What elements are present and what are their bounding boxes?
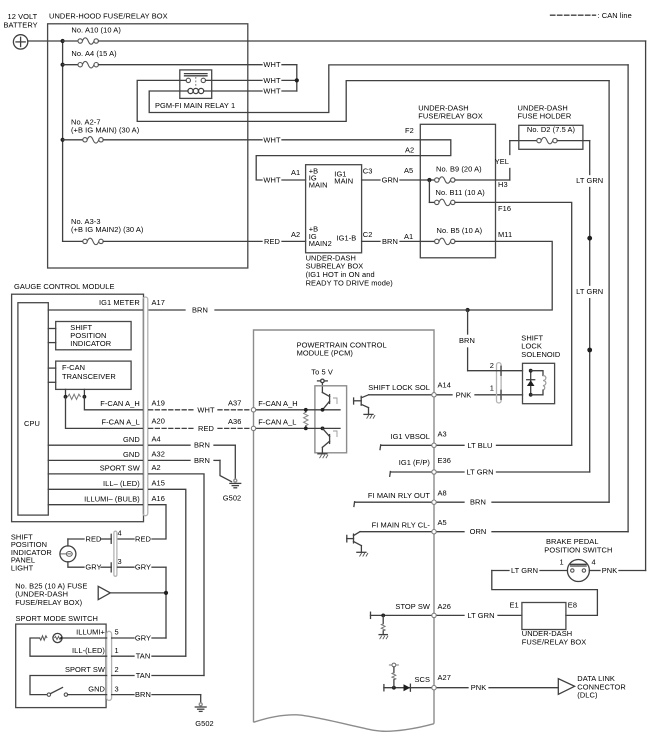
PCM pin circles right: [432, 393, 436, 690]
shift lock solenoid connector: [490, 361, 501, 403]
svg-text:A2: A2: [291, 230, 300, 239]
svg-text:F-CAN: F-CAN: [62, 363, 85, 372]
svg-text:SHIFT LOCK SOL: SHIFT LOCK SOL: [368, 383, 430, 392]
svg-text:2: 2: [115, 665, 119, 674]
under-dash fuse/relay box bottom: [510, 600, 587, 646]
svg-text:E8: E8: [568, 600, 577, 609]
svg-text:BATTERY: BATTERY: [4, 20, 38, 29]
wire F16 to V5: [496, 202, 572, 445]
sport mode switch: [16, 614, 107, 707]
svg-text:To 5 V: To 5 V: [311, 368, 333, 377]
svg-text:F-CAN A_H: F-CAN A_H: [100, 399, 140, 408]
sport switch pin numbers: [115, 628, 119, 694]
svg-text:GRN: GRN: [382, 176, 399, 185]
svg-text:GND: GND: [88, 684, 105, 693]
wire BRN to solenoid pin 2: [459, 310, 522, 371]
bus wire: [62, 41, 64, 241]
svg-text:3: 3: [115, 684, 119, 693]
svg-text:ILLUMI– (BULB): ILLUMI– (BULB): [84, 494, 140, 503]
svg-text:LT BLU: LT BLU: [467, 441, 492, 450]
wire TAN sport sw: [112, 671, 204, 680]
svg-text:RED: RED: [86, 535, 102, 544]
transistor Q2: [322, 428, 337, 453]
wire FI MAIN RLY CL- A5 ORN: [360, 518, 628, 536]
battery 12V: [4, 12, 38, 49]
wire SHIFT LOCK SOL A14: [368, 381, 522, 400]
svg-text:LT GRN: LT GRN: [466, 468, 493, 477]
svg-text:ORN: ORN: [470, 527, 487, 536]
wire BRN row to gauge: [149, 306, 468, 315]
wire IG1 VBSOL A3 LT BLU: [380, 429, 572, 449]
svg-text:FI MAIN RLY CL-: FI MAIN RLY CL-: [372, 521, 431, 530]
sport switch pin strip: [107, 631, 112, 700]
svg-text:UNDER-HOOD FUSE/RELAY BOX: UNDER-HOOD FUSE/RELAY BOX: [49, 12, 168, 21]
powertrain control module box: [254, 330, 435, 731]
svg-text:F2: F2: [405, 126, 414, 135]
svg-text:F16: F16: [498, 204, 511, 213]
svg-text:IG1 (F/P): IG1 (F/P): [399, 458, 431, 467]
under-hood fuse/relay box: [48, 12, 248, 268]
wire C3 GRN to A5: [362, 176, 421, 185]
svg-text:No. B9 (20 A): No. B9 (20 A): [436, 165, 482, 174]
svg-text:RED: RED: [198, 424, 214, 433]
wire WHT label A1: [263, 176, 305, 185]
wire F-CAN A_H gauge: [84, 397, 165, 410]
svg-text:No. A4 (15 A): No. A4 (15 A): [71, 49, 117, 58]
wire F-CAN A_L pcm: [256, 418, 340, 429]
fuse B5 (10 A): [420, 226, 495, 244]
brake pedal position switch: [544, 537, 612, 581]
svg-text:C3: C3: [363, 166, 373, 175]
wire SPORT SW A2: [48, 463, 204, 675]
wire brake LT GRN to E8: [492, 566, 598, 615]
svg-text:A15: A15: [152, 479, 165, 488]
svg-text:A2: A2: [152, 463, 161, 472]
CPU: [18, 303, 48, 515]
svg-text:FUSE HOLDER: FUSE HOLDER: [518, 112, 572, 121]
svg-text:LT GRN: LT GRN: [576, 287, 603, 296]
svg-text:IG1 METER: IG1 METER: [99, 298, 140, 307]
wire C2 BRN to A1: [362, 237, 421, 246]
node base Q2: [321, 427, 325, 431]
svg-text:A5: A5: [438, 518, 447, 527]
svg-text:INDICATOR: INDICATOR: [70, 339, 111, 348]
svg-text:A3: A3: [438, 429, 447, 438]
shift position indicator block: [48, 322, 131, 350]
svg-text:BRN: BRN: [135, 690, 151, 699]
wire junction vertical: [296, 65, 298, 91]
svg-text:POSITION SWITCH: POSITION SWITCH: [544, 545, 612, 554]
svg-text:5: 5: [115, 628, 119, 637]
svg-text:LT GRN: LT GRN: [576, 176, 603, 185]
svg-text:GND: GND: [123, 450, 140, 459]
wire V2 down: [627, 65, 629, 532]
wire relay contact right WHT: [206, 76, 297, 85]
svg-text:No. B5 (10 A): No. B5 (10 A): [437, 226, 483, 235]
fuse A10 (10 A): [63, 25, 646, 44]
svg-text:No. A10 (10 A): No. A10 (10 A): [71, 25, 121, 34]
svg-text:TAN: TAN: [136, 671, 151, 680]
wire LT GRN vertical V4: [576, 141, 603, 472]
wire GND A4 BRN: [48, 435, 235, 479]
wire V3 WHT down: [608, 81, 610, 503]
svg-text:(+B IG MAIN) (30 A): (+B IG MAIN) (30 A): [71, 126, 140, 135]
svg-text:TRANSCEIVER: TRANSCEIVER: [62, 372, 116, 381]
resistor F-CAN termination gauge: [64, 389, 87, 399]
svg-text:A4: A4: [152, 435, 161, 444]
svg-text:BRN: BRN: [194, 456, 210, 465]
CAN line legend: [551, 11, 632, 20]
svg-text:: CAN line: : CAN line: [598, 11, 632, 20]
svg-text:A2: A2: [405, 146, 414, 155]
svg-text:WHT: WHT: [263, 135, 281, 144]
data link connector DLC arrow: [558, 674, 626, 700]
svg-text:E1: E1: [510, 600, 519, 609]
svg-text:A36: A36: [228, 417, 241, 426]
wire A5 to fuses: [420, 179, 434, 181]
fuse B11 (10 A): [429, 188, 495, 206]
wire relay contact left to riser: [137, 80, 609, 121]
SCS pullup diode pcm: [384, 663, 432, 691]
svg-text:1: 1: [560, 558, 564, 567]
svg-text:SPORT SW: SPORT SW: [65, 665, 105, 674]
wire CAN A_H dashed WHT: [149, 398, 252, 414]
F-CAN transceiver block: [48, 361, 131, 389]
svg-text:SCS: SCS: [414, 675, 430, 684]
svg-text:BRN: BRN: [192, 306, 208, 315]
svg-text:MAIN: MAIN: [334, 176, 353, 185]
svg-text:GND: GND: [123, 435, 140, 444]
svg-text:A8: A8: [438, 489, 447, 498]
svg-text:1: 1: [490, 383, 494, 392]
svg-text:A1: A1: [404, 232, 413, 241]
wire ILLUMI- (BULB) A16: [48, 494, 166, 539]
svg-text:LT GRN: LT GRN: [511, 566, 538, 575]
wire IG1 METER row: [48, 298, 165, 310]
svg-text:GAUGE CONTROL MODULE: GAUGE CONTROL MODULE: [14, 282, 115, 291]
wire battery to box: [28, 40, 63, 42]
svg-text:SPORT MODE SWITCH: SPORT MODE SWITCH: [16, 614, 99, 623]
svg-text:RED: RED: [135, 535, 151, 544]
svg-text:TAN: TAN: [136, 652, 151, 661]
svg-text:GRY: GRY: [85, 563, 101, 572]
wire relay coil right WHT: [204, 87, 297, 96]
panel light connector: [111, 531, 117, 576]
svg-text:MAIN2: MAIN2: [309, 239, 332, 248]
splice dots on LT GRN: [587, 236, 592, 241]
under-dash fuse/relay box: [418, 103, 495, 257]
svg-text:BRN: BRN: [382, 237, 398, 246]
wire CAN A_L dashed RED: [149, 417, 252, 433]
under-dash subrelay box: [306, 165, 394, 288]
fuse B25 arrow: [15, 581, 166, 607]
svg-text:F-CAN A_L: F-CAN A_L: [101, 418, 139, 427]
svg-text:A27: A27: [438, 673, 451, 682]
svg-text:WHT: WHT: [263, 87, 281, 96]
fuse A3-3 (+B IG MAIN2) (30 A): [63, 217, 262, 245]
fuse B9 (20 A): [435, 165, 496, 184]
svg-text:FUSE/RELAY BOX): FUSE/RELAY BOX): [15, 598, 82, 607]
svg-text:LIGHT: LIGHT: [11, 564, 34, 573]
gauge control module: [12, 282, 144, 522]
illumination bulb sport switch: [30, 628, 107, 657]
svg-text:G502: G502: [195, 719, 214, 728]
svg-text:MAIN: MAIN: [309, 181, 328, 190]
svg-text:A20: A20: [152, 417, 165, 426]
svg-text:A1: A1: [291, 168, 300, 177]
wire STOP SW A26 LT GRN: [395, 602, 521, 620]
svg-text:G502: G502: [223, 494, 242, 503]
svg-text:GRY: GRY: [135, 563, 151, 572]
stop sw resistor ground pcm: [371, 612, 432, 639]
wire H3 YEL to D2 fuse: [495, 141, 537, 180]
svg-text:(+B IG MAIN2) (30 A): (+B IG MAIN2) (30 A): [71, 225, 144, 234]
wire F-CAN A_H pcm: [256, 399, 340, 410]
svg-text:4: 4: [118, 529, 122, 538]
node GRY junction: [164, 591, 168, 595]
svg-text:F-CAN A_L: F-CAN A_L: [258, 418, 296, 427]
svg-text:IG1 VBSOL: IG1 VBSOL: [390, 432, 430, 441]
ground G502 sport: [195, 703, 214, 728]
svg-text:WHT: WHT: [263, 60, 281, 69]
transistor Q4 FI MAIN RLY CL-: [347, 532, 368, 557]
node WHT junction: [295, 78, 299, 82]
wire GRY sport: [112, 634, 166, 643]
svg-text:LT GRN: LT GRN: [467, 611, 494, 620]
node B9/B11: [427, 178, 431, 182]
wire brake PNK: [589, 566, 645, 575]
svg-text:FI MAIN RLY OUT: FI MAIN RLY OUT: [368, 491, 430, 500]
wire SCS A27 PNK to DLC: [414, 673, 558, 692]
wire GND A32 BRN: [48, 450, 231, 482]
svg-text:ILL-(LED): ILL-(LED): [72, 646, 105, 655]
svg-text:ILL– (LED): ILL– (LED): [103, 479, 140, 488]
wire BRN to G502: [112, 690, 201, 703]
svg-text:FUSE/RELAY BOX: FUSE/RELAY BOX: [418, 112, 483, 121]
sport sw contact: [30, 665, 107, 696]
fuse D2 (7.5 A): [527, 125, 590, 144]
svg-text:SOLENOID: SOLENOID: [521, 350, 561, 359]
svg-text:BRN: BRN: [459, 336, 475, 345]
svg-text:RED: RED: [264, 237, 280, 246]
svg-text:ILLUMI+: ILLUMI+: [76, 628, 105, 637]
svg-text:A32: A32: [152, 450, 165, 459]
node battery bus: [61, 39, 65, 43]
fuse A2-7 (+B IG MAIN) (30 A): [63, 117, 262, 143]
ground G502 gauge: [223, 479, 242, 502]
svg-text:PGM-FI MAIN RELAY 1: PGM-FI MAIN RELAY 1: [155, 101, 235, 110]
wire F-CAN A_L gauge: [66, 397, 165, 429]
svg-text:1: 1: [115, 646, 119, 655]
To 5 V supply: [311, 368, 333, 393]
transistor Q3 shift lock driver: [354, 395, 376, 419]
svg-text:WHT: WHT: [263, 76, 281, 85]
PGM-FI main relay 1: [155, 70, 235, 110]
wire B9-B11 branch: [428, 180, 430, 202]
svg-text:STOP SW: STOP SW: [395, 602, 430, 611]
svg-text:BRN: BRN: [470, 498, 486, 507]
svg-text:C2: C2: [363, 230, 373, 239]
wire WHT to F2: [263, 135, 420, 144]
svg-text:FUSE/RELAY BOX: FUSE/RELAY BOX: [522, 637, 587, 646]
svg-text:WHT: WHT: [263, 176, 281, 185]
wire A2 to subrelay A1: [256, 156, 420, 180]
wire GRY from panel light: [85, 557, 166, 638]
node base Q1: [321, 408, 325, 412]
PCM pin circles left: [251, 408, 255, 412]
gauge pin strip: [143, 297, 148, 516]
ground pcm network: [318, 454, 328, 458]
svg-text:GRY: GRY: [135, 634, 151, 643]
svg-text:WHT: WHT: [197, 405, 215, 414]
svg-text:BRN: BRN: [194, 441, 210, 450]
svg-text:A17: A17: [152, 298, 165, 307]
svg-text:IG1-B: IG1-B: [337, 234, 357, 243]
svg-text:F-CAN A_H: F-CAN A_H: [258, 399, 298, 408]
svg-text:2: 2: [490, 361, 494, 370]
shift lock solenoid: [521, 333, 561, 403]
svg-text:A19: A19: [152, 398, 165, 407]
shift position indicator panel light: [11, 532, 84, 572]
transistor Q1: [322, 393, 337, 410]
svg-text:A26: A26: [438, 602, 451, 611]
wire F2-A2 jumper: [420, 140, 451, 156]
wire RED to subrelay A2: [264, 237, 306, 246]
svg-text:A14: A14: [438, 381, 451, 390]
svg-text:PNK: PNK: [456, 390, 472, 399]
wire IG1 (F/P) E36 LT GRN: [390, 456, 590, 476]
wire RED to panel light connector: [68, 529, 152, 544]
wire FI MAIN RLY OUT A8 BRN: [354, 489, 609, 507]
svg-text:A5: A5: [404, 166, 413, 175]
svg-text:4: 4: [592, 558, 596, 567]
wire relay coil left to riser: [149, 65, 628, 113]
under-dash fuse holder: [518, 103, 583, 149]
svg-text:E36: E36: [438, 456, 451, 465]
svg-text:SPORT SW: SPORT SW: [100, 464, 140, 473]
svg-text:No. D2 (7.5 A): No. D2 (7.5 A): [527, 125, 576, 134]
svg-text:H3: H3: [498, 180, 508, 189]
svg-text:3: 3: [118, 557, 122, 566]
node BRN branch: [466, 308, 470, 312]
wire V1 down: [645, 41, 647, 571]
resistor CAN termination pcm: [304, 408, 308, 430]
wire M11 to BRN row: [468, 241, 553, 310]
svg-text:A37: A37: [228, 398, 241, 407]
svg-text:No. B11 (10 A): No. B11 (10 A): [436, 188, 486, 197]
svg-text:MODULE (PCM): MODULE (PCM): [297, 349, 354, 358]
svg-text:M11: M11: [498, 230, 512, 239]
svg-text:CPU: CPU: [24, 419, 40, 428]
svg-text:YEL: YEL: [495, 157, 509, 166]
wire ILL- (LED) A15: [48, 479, 186, 657]
fuse A4 (15 A): [63, 49, 262, 68]
wire WHT row1 to junction: [263, 60, 296, 69]
svg-text:A16: A16: [152, 494, 165, 503]
svg-text:PNK: PNK: [471, 683, 487, 692]
wire TAN ILL: [112, 652, 186, 661]
svg-text:PNK: PNK: [602, 566, 618, 575]
svg-text:READY TO DRIVE mode): READY TO DRIVE mode): [306, 278, 394, 287]
svg-text:(DLC): (DLC): [577, 691, 598, 700]
transistor network box: [315, 386, 347, 453]
